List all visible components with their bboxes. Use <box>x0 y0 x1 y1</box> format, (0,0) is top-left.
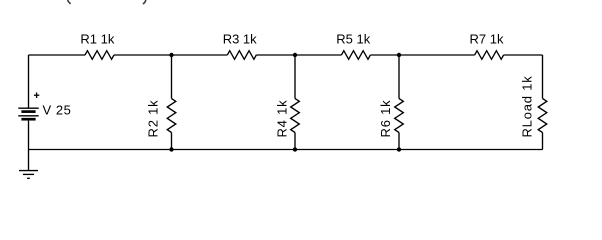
svg-text:R6 1k: R6 1k <box>378 100 393 138</box>
svg-text:R3 1k: R3 1k <box>223 32 257 47</box>
wire R7 to top-right corner <box>504 54 543 56</box>
wire bottom bus <box>29 149 543 151</box>
resistor R2 <box>167 99 176 133</box>
wire R3 to node B <box>256 54 341 56</box>
wire R6 branch lower <box>398 133 400 150</box>
svg-text:R4 1k: R4 1k <box>274 100 289 138</box>
junction node B top <box>293 53 297 57</box>
resistor R1 <box>85 51 114 60</box>
ground <box>19 171 38 179</box>
plus polarity mark <box>34 93 39 99</box>
svg-text:R7 1k: R7 1k <box>470 32 504 47</box>
resistor R4 <box>291 99 300 133</box>
junction node C bottom <box>397 147 401 151</box>
wire R5 to node C <box>370 54 474 56</box>
svg-text:R2 1k: R2 1k <box>146 100 161 138</box>
title fragment left paren <box>68 0 71 4</box>
wire RLoad branch upper <box>542 55 544 99</box>
resistor R3 <box>227 51 256 60</box>
wire R4 branch lower <box>294 133 296 150</box>
svg-text:R5 1k: R5 1k <box>336 32 370 47</box>
wire R4 branch upper <box>294 55 296 99</box>
battery V1 plates <box>18 108 38 119</box>
wire left branch upper <box>28 55 30 108</box>
junction node A top <box>169 53 173 57</box>
title fragment right paren <box>143 0 146 4</box>
wire R6 branch upper <box>398 55 400 99</box>
svg-text:V 25: V 25 <box>43 102 72 117</box>
svg-text:R1 1k: R1 1k <box>80 32 114 47</box>
resistor R7 <box>475 51 504 60</box>
wire R1 to node A <box>114 54 227 56</box>
junction node C top <box>397 53 401 57</box>
resistor R6 <box>395 99 404 133</box>
wire R2 branch upper <box>171 55 173 99</box>
resistor R5 <box>341 51 370 60</box>
wire top bus <box>29 54 86 56</box>
resistor RLoad <box>538 99 547 133</box>
junction node A bottom <box>169 147 173 151</box>
wire RLoad branch lower <box>542 133 544 150</box>
wire R2 branch lower <box>171 133 173 150</box>
wire battery to bottom bus and ground <box>28 121 30 171</box>
junction node B bottom <box>293 147 297 151</box>
svg-text:RLoad 1k: RLoad 1k <box>519 75 534 137</box>
